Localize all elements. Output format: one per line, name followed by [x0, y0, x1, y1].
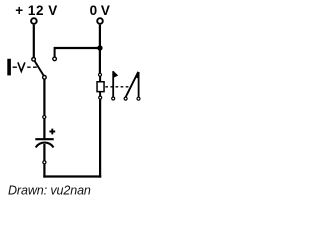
- capacitor C1 top terminal: [43, 115, 46, 118]
- relay contact common terminal: [124, 97, 127, 100]
- capacitor C1 plus sign: [49, 129, 55, 135]
- wire bottom rail: [43, 175, 101, 177]
- capacitor C1 top plate: [35, 138, 53, 140]
- relay RL1 coil bottom terminal: [99, 96, 102, 99]
- switch SW1 arm: [35, 61, 44, 75]
- wire bottom rail up to coil: [99, 99, 101, 177]
- terminal +12V: [31, 18, 37, 24]
- terminal 0V: [97, 18, 103, 24]
- switch SW1 right contact: [53, 57, 57, 61]
- wire switch common to capacitor: [43, 79, 45, 115]
- switch SW1 left contact: [32, 58, 36, 62]
- capacitor C1 bottom terminal: [43, 161, 46, 164]
- relay contact NC line: [112, 71, 114, 97]
- relay mechanical linkage dashed: [105, 86, 131, 88]
- svg-text:Drawn: vu2nan: Drawn: vu2nan: [8, 183, 91, 197]
- wire +12V to switch: [33, 25, 35, 58]
- wire coil bottom terminal to coil: [99, 92, 101, 96]
- relay contact moving blade: [126, 72, 139, 97]
- wire coil to top terminal: [99, 77, 101, 82]
- switch SW1 actuator V mark: [18, 62, 25, 71]
- relay RL1 coil: [97, 82, 104, 92]
- switch SW1 actuator bar: [7, 59, 11, 76]
- switch SW1 common contact: [43, 76, 47, 80]
- wire stub down to switch right contact: [54, 47, 56, 57]
- node junction: [97, 45, 102, 50]
- switch SW1 actuator link dashes: [13, 66, 37, 68]
- relay contact NO flag: [135, 72, 140, 79]
- wire curved plate to bottom terminal: [43, 144, 45, 161]
- relay contact NO terminal: [137, 97, 140, 100]
- wire cap terminal to plate: [43, 119, 45, 139]
- wire 0V down to junction and coil: [99, 25, 101, 73]
- relay RL1 coil top terminal: [99, 73, 102, 76]
- wire cap to bottom rail: [43, 164, 45, 178]
- svg-text:+ 12 V: + 12 V: [15, 3, 57, 18]
- relay contact NC flag: [113, 71, 118, 78]
- wire junction to switch stub: [54, 47, 100, 49]
- svg-text:0 V: 0 V: [90, 3, 110, 18]
- capacitor C1 bottom curved plate: [36, 143, 54, 148]
- relay contact NO line: [138, 72, 140, 97]
- relay contact NC terminal: [112, 97, 115, 100]
